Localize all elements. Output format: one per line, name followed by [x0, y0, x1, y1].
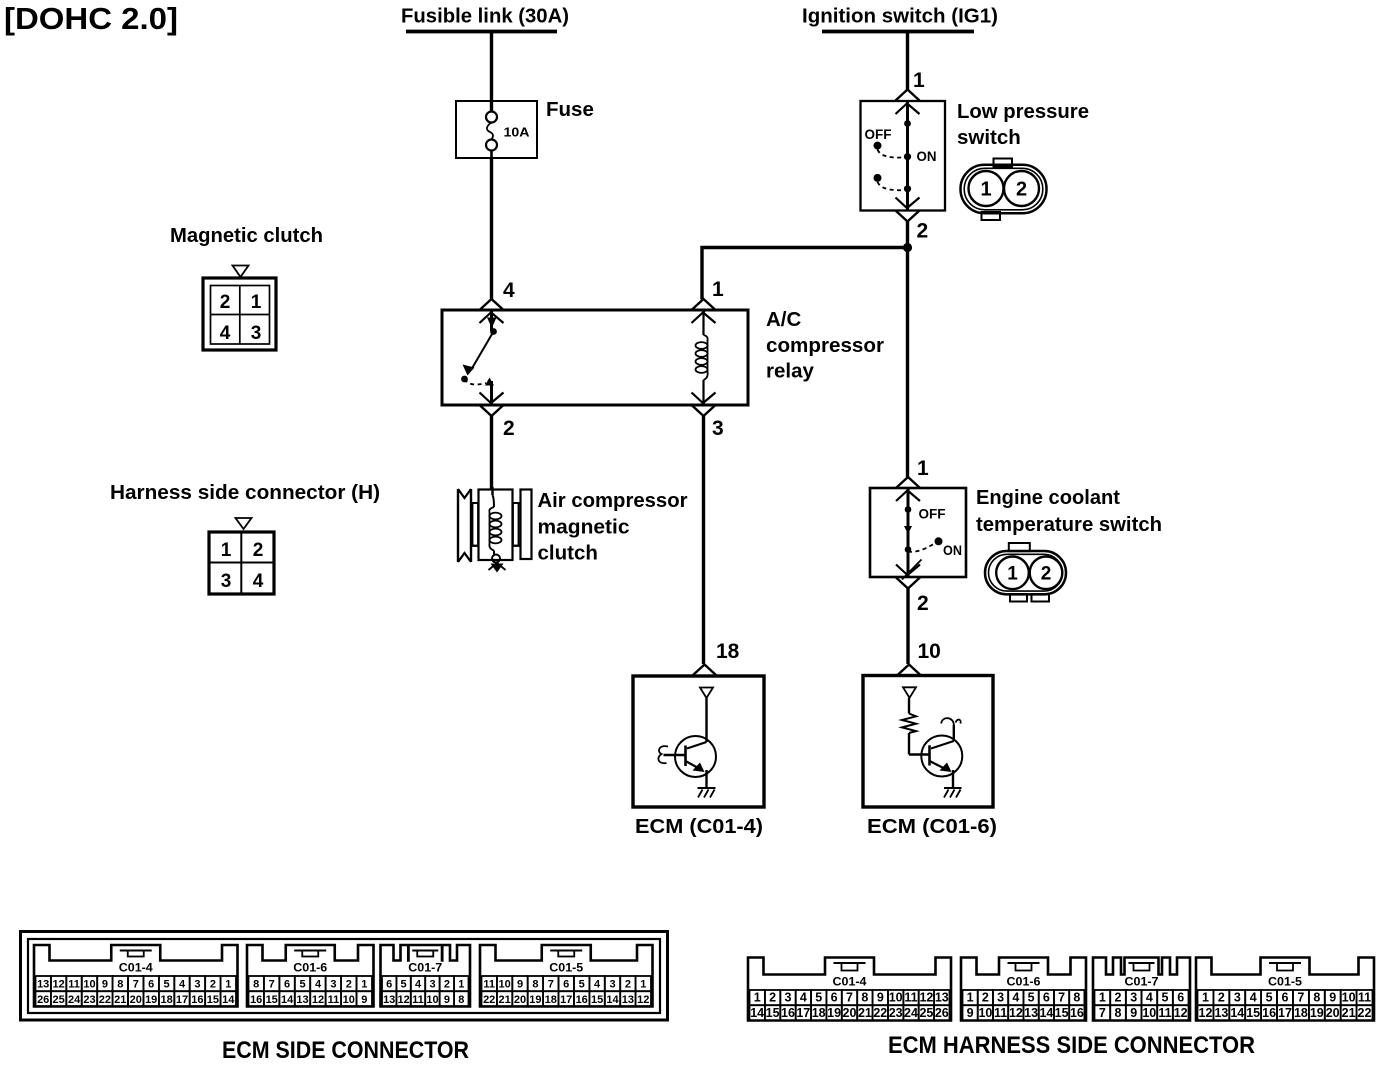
ground at Q1 emitter [698, 788, 716, 798]
svg-text:2: 2 [1016, 179, 1027, 201]
fuse F1 box [456, 101, 537, 158]
pin 3 of relay K1 [692, 405, 724, 440]
svg-text:23: 23 [83, 994, 95, 1006]
svg-text:8: 8 [458, 994, 464, 1006]
label Magnetic clutch [170, 224, 323, 247]
svg-text:12: 12 [312, 994, 324, 1006]
value label 10A [504, 126, 530, 140]
svg-text:9: 9 [877, 991, 884, 1005]
svg-text:10: 10 [1342, 991, 1356, 1005]
connector C01-6 (harness side) [961, 958, 1086, 1021]
svg-text:3: 3 [221, 571, 232, 592]
svg-text:26: 26 [935, 1006, 949, 1020]
svg-text:16: 16 [576, 994, 588, 1006]
svg-text:ECM (C01-6): ECM (C01-6) [867, 815, 997, 838]
wire: relay pin 2 to magnetic clutch [490, 416, 493, 489]
svg-text:19: 19 [827, 1006, 841, 1020]
wire: junction down to coolant temp switch [906, 248, 909, 478]
svg-text:3: 3 [251, 323, 262, 344]
svg-text:9: 9 [361, 994, 367, 1006]
svg-text:16: 16 [1262, 1006, 1276, 1020]
connector C01-5 (ECM side) [480, 945, 653, 1006]
relay K1 switch contact [461, 310, 503, 405]
svg-text:1: 1 [458, 979, 464, 991]
label Engine coolant temperature switch [976, 486, 1162, 536]
ground at clutch [489, 563, 506, 573]
ECM side connector outer frame [21, 932, 668, 1021]
svg-text:magnetic: magnetic [538, 516, 630, 539]
svg-text:Air compressor: Air compressor [538, 489, 688, 512]
svg-text:17: 17 [176, 994, 188, 1006]
harness side connector symbol [209, 518, 274, 594]
svg-text:15: 15 [1246, 1006, 1260, 1020]
svg-text:11: 11 [68, 979, 80, 991]
svg-text:14: 14 [222, 994, 235, 1006]
svg-text:6: 6 [831, 991, 838, 1005]
svg-text:9: 9 [1130, 1006, 1137, 1020]
svg-text:1: 1 [1202, 991, 1209, 1005]
svg-text:ON: ON [943, 543, 962, 558]
svg-text:10: 10 [1142, 1006, 1156, 1020]
svg-text:1: 1 [917, 457, 929, 480]
svg-text:1: 1 [1099, 991, 1106, 1005]
svg-text:20: 20 [843, 1006, 857, 1020]
svg-text:C01-4: C01-4 [119, 963, 154, 975]
svg-text:21: 21 [1342, 1006, 1356, 1020]
svg-text:13: 13 [1214, 1006, 1228, 1020]
svg-text:3: 3 [194, 979, 200, 991]
caption ECM HARNESS SIDE CONNECTOR [888, 1032, 1255, 1059]
svg-text:11: 11 [328, 994, 340, 1006]
label ECM (C01-6) [867, 815, 997, 838]
svg-text:3: 3 [1130, 991, 1137, 1005]
pin 2 of coolant temp switch [896, 578, 929, 616]
svg-text:6: 6 [386, 979, 392, 991]
svg-text:clutch: clutch [538, 542, 598, 565]
svg-text:12: 12 [52, 979, 64, 991]
svg-text:1: 1 [967, 991, 974, 1005]
svg-text:2: 2 [917, 592, 929, 615]
svg-text:10: 10 [83, 979, 95, 991]
wire resistor to transistor Q2 base [909, 733, 930, 755]
svg-text:4: 4 [1250, 991, 1257, 1005]
svg-text:20: 20 [514, 994, 526, 1006]
fuse F1 element [486, 112, 497, 159]
svg-text:4: 4 [220, 323, 231, 344]
svg-text:6: 6 [1282, 991, 1289, 1005]
svg-text:7: 7 [1099, 1006, 1106, 1020]
pin 18 of ECM C01-4 [693, 640, 740, 676]
svg-text:5: 5 [1162, 991, 1169, 1005]
svg-text:C01-5: C01-5 [1268, 977, 1303, 989]
svg-text:A/C: A/C [766, 308, 802, 331]
svg-text:3: 3 [1234, 991, 1241, 1005]
pin 1 of low pressure switch [896, 69, 926, 101]
svg-text:8: 8 [861, 991, 868, 1005]
svg-text:19: 19 [529, 994, 541, 1006]
pin 1 of relay K1 [692, 278, 725, 310]
pin 4 of relay K1 [480, 279, 516, 310]
svg-text:9: 9 [967, 1006, 974, 1020]
svg-text:Fuse: Fuse [546, 98, 594, 121]
label Fuse [546, 98, 594, 121]
svg-text:14: 14 [1230, 1006, 1244, 1020]
relay K1 A/C compressor relay box [442, 310, 748, 405]
svg-text:1: 1 [754, 991, 761, 1005]
svg-text:1: 1 [640, 979, 646, 991]
svg-text:20: 20 [130, 994, 142, 1006]
svg-text:temperature switch: temperature switch [976, 513, 1162, 536]
low pressure switch S1 box [861, 101, 946, 211]
svg-text:7: 7 [269, 979, 275, 991]
wire triangle to resistor R1 [908, 698, 910, 714]
svg-text:16: 16 [781, 1006, 795, 1020]
svg-text:11: 11 [1158, 1006, 1171, 1020]
svg-text:6: 6 [284, 979, 290, 991]
svg-text:25: 25 [919, 1006, 933, 1020]
svg-text:24: 24 [904, 1006, 918, 1020]
svg-text:14: 14 [281, 994, 294, 1006]
svg-text:22: 22 [1358, 1006, 1372, 1020]
svg-text:OFF: OFF [865, 127, 892, 142]
svg-text:16: 16 [250, 994, 262, 1006]
svg-text:7: 7 [133, 979, 139, 991]
svg-text:C01-5: C01-5 [549, 963, 584, 975]
wire: coolant temp switch pin 2 to ECM pin 10 [906, 589, 909, 665]
label ON in S2 [943, 543, 962, 558]
connector C01-4 (ECM side) [34, 945, 238, 1006]
svg-text:2: 2 [625, 979, 631, 991]
svg-text:2: 2 [210, 979, 216, 991]
wire: fusible link to fuse F1 [490, 32, 493, 113]
svg-text:22: 22 [483, 994, 495, 1006]
svg-text:13: 13 [37, 979, 49, 991]
svg-text:17: 17 [1278, 1006, 1292, 1020]
svg-text:2: 2 [346, 979, 352, 991]
transistor Q2 in ECM C01-6 [921, 718, 962, 787]
svg-text:9: 9 [517, 979, 523, 991]
air compressor magnetic clutch L1 pulley [458, 489, 471, 562]
wire: junction to relay pin 1 [702, 248, 908, 300]
svg-text:13: 13 [1024, 1006, 1038, 1020]
net label: Fusible link (30A) [401, 5, 569, 32]
label Air compressor magnetic clutch [538, 489, 688, 565]
power triangle in ECM C01-6 [903, 687, 916, 698]
svg-text:7: 7 [548, 979, 554, 991]
svg-text:Fusible link (30A): Fusible link (30A) [401, 5, 569, 28]
svg-text:2: 2 [917, 220, 929, 243]
svg-text:12: 12 [1199, 1006, 1213, 1020]
net label: Ignition switch (IG1) [802, 5, 998, 32]
svg-text:6: 6 [1043, 991, 1050, 1005]
svg-text:5: 5 [1028, 991, 1035, 1005]
svg-text:8: 8 [1073, 991, 1080, 1005]
svg-text:13: 13 [935, 991, 949, 1005]
svg-text:3: 3 [609, 979, 615, 991]
svg-text:12: 12 [637, 994, 649, 1006]
svg-text:2: 2 [503, 417, 515, 440]
wire: LP switch pin 2 down to junction [906, 222, 909, 248]
pin 2 of relay K1 [480, 405, 515, 440]
svg-text:C01-6: C01-6 [293, 963, 327, 975]
svg-text:4: 4 [415, 979, 422, 991]
svg-text:22: 22 [99, 994, 111, 1006]
svg-text:ON: ON [917, 149, 937, 164]
svg-text:6: 6 [563, 979, 569, 991]
svg-text:11: 11 [483, 979, 495, 991]
svg-text:9: 9 [444, 994, 450, 1006]
svg-text:16: 16 [1070, 1006, 1084, 1020]
label ECM (C01-4) [635, 815, 763, 838]
svg-text:23: 23 [889, 1006, 903, 1020]
power triangle in ECM C01-4 [700, 688, 713, 699]
svg-text:20: 20 [1326, 1006, 1340, 1020]
title [DOHC 2.0] [4, 1, 178, 36]
svg-text:Magnetic clutch: Magnetic clutch [170, 224, 323, 247]
svg-text:2: 2 [1041, 564, 1052, 585]
svg-text:2: 2 [253, 540, 264, 561]
svg-text:4: 4 [594, 979, 601, 991]
label Harness side connector (H) [110, 481, 380, 504]
svg-text:4: 4 [179, 979, 186, 991]
svg-text:24: 24 [68, 994, 81, 1006]
label ON in S1 [917, 149, 937, 164]
svg-text:15: 15 [1055, 1006, 1069, 1020]
svg-text:2: 2 [982, 991, 989, 1005]
svg-text:22: 22 [873, 1006, 887, 1020]
svg-text:10A: 10A [504, 126, 530, 140]
svg-text:ECM SIDE CONNECTOR: ECM SIDE CONNECTOR [222, 1037, 469, 1064]
svg-text:7: 7 [1058, 991, 1065, 1005]
low pressure switch S1 contact [874, 101, 920, 211]
label A/C compressor relay [766, 308, 884, 383]
svg-text:10: 10 [918, 640, 941, 663]
pin 2 of low pressure switch [896, 211, 929, 243]
svg-text:16: 16 [191, 994, 203, 1006]
connector C01-7 (harness side) [1093, 958, 1190, 1021]
svg-text:12: 12 [1174, 1006, 1188, 1020]
wire: fuse to relay pin 4 [490, 158, 493, 300]
caption ECM SIDE CONNECTOR [222, 1037, 469, 1064]
engine coolant temperature switch S2 box [870, 488, 966, 577]
svg-text:12: 12 [397, 994, 409, 1006]
label Low pressure switch [957, 100, 1089, 149]
svg-text:10: 10 [889, 991, 903, 1005]
clutch L1 plates and stubs [471, 490, 532, 560]
svg-text:1: 1 [1007, 564, 1018, 585]
svg-text:19: 19 [1310, 1006, 1324, 1020]
wire: ignition switch to low pressure switch pin 1 [906, 32, 909, 91]
svg-text:21: 21 [858, 1006, 872, 1020]
svg-text:9: 9 [1329, 991, 1336, 1005]
svg-text:11: 11 [994, 1006, 1007, 1020]
svg-text:C01-7: C01-7 [408, 963, 442, 975]
svg-text:Low pressure: Low pressure [957, 100, 1089, 123]
svg-text:5: 5 [579, 979, 585, 991]
pin 1 of engine coolant temperature switch [896, 457, 929, 488]
svg-text:19: 19 [145, 994, 157, 1006]
svg-text:5: 5 [164, 979, 170, 991]
svg-text:1: 1 [225, 979, 231, 991]
svg-text:18: 18 [812, 1006, 826, 1020]
svg-text:10: 10 [343, 994, 355, 1006]
svg-text:11: 11 [1358, 991, 1371, 1005]
svg-text:11: 11 [904, 991, 917, 1005]
svg-text:18: 18 [160, 994, 172, 1006]
svg-text:ECM HARNESS SIDE CONNECTOR: ECM HARNESS SIDE CONNECTOR [888, 1032, 1255, 1059]
svg-text:C01-6: C01-6 [1007, 977, 1041, 989]
svg-text:15: 15 [266, 994, 278, 1006]
svg-text:3: 3 [712, 417, 724, 440]
svg-text:13: 13 [383, 994, 395, 1006]
svg-text:4: 4 [503, 279, 515, 302]
svg-text:C01-7: C01-7 [1125, 977, 1159, 989]
pin 10 of ECM C01-6 [897, 640, 941, 676]
svg-text:6: 6 [1177, 991, 1184, 1005]
svg-text:13: 13 [296, 994, 308, 1006]
svg-text:26: 26 [37, 994, 49, 1006]
svg-text:Ignition switch (IG1): Ignition switch (IG1) [802, 5, 998, 28]
svg-text:12: 12 [1009, 1006, 1023, 1020]
ground at Q2 emitter [944, 788, 962, 798]
wire: relay pin 3 to ECM pin 18 [702, 416, 705, 664]
svg-text:18: 18 [716, 640, 740, 663]
coolant temp switch S2 contact [896, 488, 943, 580]
svg-text:2: 2 [444, 979, 450, 991]
svg-text:10: 10 [978, 1006, 992, 1020]
svg-text:7: 7 [846, 991, 853, 1005]
svg-text:9: 9 [102, 979, 108, 991]
junction node [903, 243, 912, 252]
svg-text:1: 1 [712, 278, 724, 301]
svg-text:8: 8 [1313, 991, 1320, 1005]
svg-text:8: 8 [253, 979, 259, 991]
magnetic clutch connector symbol [203, 266, 276, 351]
svg-text:11: 11 [412, 994, 424, 1006]
relay K1 coil [692, 310, 716, 405]
svg-text:7: 7 [1297, 991, 1304, 1005]
svg-text:3: 3 [330, 979, 336, 991]
svg-text:2: 2 [220, 292, 231, 313]
svg-text:14: 14 [1039, 1006, 1053, 1020]
svg-text:ECM (C01-4): ECM (C01-4) [635, 815, 763, 838]
clutch L1 coil winding [489, 487, 501, 563]
svg-text:18: 18 [545, 994, 557, 1006]
connector C01-5 (harness side) [1196, 958, 1374, 1021]
connector C01-4 (harness side) [748, 958, 951, 1021]
svg-text:1: 1 [221, 540, 232, 561]
svg-text:5: 5 [1266, 991, 1273, 1005]
svg-text:1: 1 [980, 179, 991, 201]
svg-text:5: 5 [815, 991, 822, 1005]
svg-text:2: 2 [769, 991, 776, 1005]
resistor R1 in ECM C01-6 [902, 714, 916, 734]
transistor Q1 in ECM C01-4 [658, 736, 716, 787]
svg-text:1: 1 [913, 69, 925, 92]
svg-text:17: 17 [796, 1006, 810, 1020]
svg-text:[DOHC 2.0]: [DOHC 2.0] [4, 1, 178, 36]
ECM U2 (C01-6) box [863, 676, 993, 808]
svg-text:3: 3 [785, 991, 792, 1005]
clutch L1 coil box [479, 490, 513, 561]
svg-text:12: 12 [919, 991, 933, 1005]
svg-text:13: 13 [622, 994, 634, 1006]
svg-text:switch: switch [957, 126, 1021, 149]
svg-text:4: 4 [1146, 991, 1153, 1005]
connector C01-6 (ECM side) [247, 945, 374, 1006]
svg-text:14: 14 [606, 994, 619, 1006]
svg-text:1: 1 [251, 292, 262, 313]
svg-text:21: 21 [114, 994, 126, 1006]
svg-text:relay: relay [766, 360, 814, 383]
low pressure switch connector (pins 1 2) [961, 159, 1047, 221]
coolant temp switch connector (pins 1 2) [985, 543, 1066, 602]
svg-text:15: 15 [207, 994, 219, 1006]
svg-text:21: 21 [498, 994, 510, 1006]
svg-text:18: 18 [1294, 1006, 1308, 1020]
svg-text:5: 5 [299, 979, 305, 991]
label OFF in S1 [865, 127, 892, 142]
svg-text:8: 8 [532, 979, 538, 991]
svg-text:10: 10 [498, 979, 510, 991]
wire triangle to transistor Q1 [705, 698, 707, 742]
svg-text:Harness side connector (H): Harness side connector (H) [110, 481, 380, 504]
svg-text:2: 2 [1218, 991, 1225, 1005]
svg-text:2: 2 [1115, 991, 1122, 1005]
svg-text:3: 3 [997, 991, 1004, 1005]
svg-text:5: 5 [401, 979, 407, 991]
ECM U1 (C01-4) box [633, 676, 764, 807]
svg-text:10: 10 [426, 994, 438, 1006]
svg-text:1: 1 [361, 979, 367, 991]
svg-text:3: 3 [429, 979, 435, 991]
svg-text:15: 15 [591, 994, 603, 1006]
svg-text:4: 4 [253, 571, 264, 592]
svg-text:OFF: OFF [919, 507, 946, 522]
svg-text:C01-4: C01-4 [833, 977, 868, 989]
svg-text:compressor: compressor [766, 334, 884, 357]
svg-text:14: 14 [750, 1006, 764, 1020]
svg-text:15: 15 [766, 1006, 780, 1020]
svg-text:4: 4 [800, 991, 807, 1005]
svg-text:4: 4 [315, 979, 322, 991]
label OFF in S2 [919, 507, 946, 522]
svg-text:8: 8 [1115, 1006, 1122, 1020]
svg-text:8: 8 [117, 979, 123, 991]
svg-text:4: 4 [1012, 991, 1019, 1005]
svg-text:25: 25 [52, 994, 64, 1006]
svg-text:Engine coolant: Engine coolant [976, 486, 1120, 509]
connector C01-7 (ECM side) [381, 945, 471, 1006]
svg-text:17: 17 [560, 994, 572, 1006]
svg-text:6: 6 [148, 979, 154, 991]
